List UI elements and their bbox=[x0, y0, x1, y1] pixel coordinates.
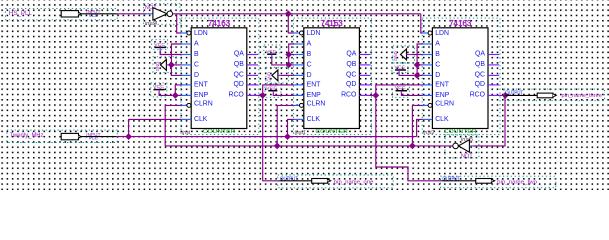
svg-text:C: C bbox=[435, 62, 440, 69]
junction CLK chip2 bbox=[284, 133, 291, 140]
wire VCC to junction C chip2 bbox=[272, 58, 286, 65]
wire VCC to ENP chip3 bbox=[401, 93, 422, 95]
wire junction to ENT chip1 bbox=[175, 85, 181, 96]
junction C chip2 bbox=[285, 62, 292, 69]
svg-text:Twenty_MHz: Twenty_MHz bbox=[10, 132, 44, 139]
svg-text:pin_name_one: pin_name_one bbox=[334, 180, 374, 186]
svg-text:D: D bbox=[435, 72, 440, 79]
junction D chip3 bbox=[414, 72, 421, 79]
svg-text:QA: QA bbox=[234, 51, 244, 58]
wire RCO chip1 junction bbox=[259, 92, 266, 99]
counter 74163 inst2 bbox=[422, 18, 500, 136]
svg-text:D: D bbox=[194, 72, 199, 79]
svg-text:CLK: CLK bbox=[194, 116, 208, 123]
wire VCC to junction D chip3 bbox=[399, 72, 414, 75]
wire HS_PLL to NOT inst4 bbox=[117, 13, 147, 15]
wire RCO2 to ENT chip3 bbox=[376, 85, 423, 96]
svg-text:inst2: inst2 bbox=[423, 130, 434, 136]
wire to CLRN chip2 bbox=[277, 105, 294, 145]
wire GND to junction chip1 bbox=[169, 64, 171, 66]
junction ENP chip1 bbox=[172, 92, 179, 99]
ground GND symbol chip1 data bbox=[153, 57, 177, 73]
svg-text:A: A bbox=[194, 41, 199, 48]
svg-text:COUNTER: COUNTER bbox=[315, 129, 348, 135]
wire to CLRN chip3 bbox=[412, 105, 422, 145]
svg-text:C: C bbox=[194, 62, 199, 69]
wire inst5 input from RCO chip3 bbox=[473, 95, 505, 145]
svg-text:74163: 74163 bbox=[449, 19, 472, 28]
dot grid background bbox=[0, 0, 609, 190]
power VCC symbol chip2 ENP bbox=[265, 84, 281, 97]
input pin HS_PLL bbox=[6, 8, 118, 19]
svg-text:RCO: RCO bbox=[341, 91, 357, 98]
inverter NOT inst5 (mirrored) bbox=[445, 135, 479, 159]
output pin pin_name_one bbox=[278, 175, 393, 188]
svg-text:ENP: ENP bbox=[194, 92, 209, 99]
svg-text:NOT: NOT bbox=[461, 153, 473, 159]
junction B chip2 bbox=[285, 51, 292, 58]
svg-text:pin_name_three: pin_name_three bbox=[562, 93, 602, 99]
svg-text:CLRN: CLRN bbox=[194, 101, 213, 108]
power VCC symbol chip2 data bbox=[264, 45, 280, 59]
svg-text:QB: QB bbox=[475, 61, 485, 68]
junction CLRN chip2 bbox=[274, 143, 281, 150]
wire RCO1 down to pin_name_one bbox=[263, 95, 280, 180]
svg-text:A: A bbox=[307, 41, 312, 48]
svg-text:COUNTER: COUNTER bbox=[203, 129, 236, 135]
svg-text:QC: QC bbox=[475, 71, 485, 78]
svg-text:ENP: ENP bbox=[307, 92, 322, 99]
wire rail Twenty_MHz bbox=[117, 136, 417, 138]
svg-text:A: A bbox=[435, 41, 440, 48]
svg-text:QB: QB bbox=[346, 61, 356, 68]
svg-text:C: C bbox=[307, 62, 312, 69]
power VCC symbol chip3 ENP bbox=[393, 84, 410, 97]
svg-text:GND: GND bbox=[155, 62, 160, 72]
svg-text:ENT: ENT bbox=[194, 82, 209, 89]
svg-text:ENT: ENT bbox=[435, 82, 450, 89]
svg-text:ENP: ENP bbox=[435, 92, 450, 99]
svg-text:OUTPUT: OUTPUT bbox=[442, 177, 460, 183]
counter 74163 inst1 bbox=[294, 18, 372, 136]
svg-text:74163: 74163 bbox=[208, 19, 231, 28]
svg-text:QD: QD bbox=[346, 81, 356, 88]
wire RCO2 down to pin_name_two bbox=[376, 95, 442, 180]
svg-text:HS_PLL: HS_PLL bbox=[9, 10, 33, 17]
svg-text:QB: QB bbox=[234, 61, 244, 68]
svg-text:QC: QC bbox=[346, 71, 356, 78]
svg-text:RCO: RCO bbox=[470, 91, 486, 98]
wire rail clear net bbox=[165, 145, 453, 147]
svg-text:B: B bbox=[194, 51, 199, 58]
svg-text:74163: 74163 bbox=[321, 19, 344, 28]
input pin Twenty_MHz bbox=[7, 130, 117, 142]
svg-text:GND: GND bbox=[393, 51, 398, 61]
svg-text:QC: QC bbox=[233, 71, 243, 78]
svg-text:LDN: LDN bbox=[435, 30, 449, 37]
svg-text:CLK: CLK bbox=[435, 116, 449, 123]
svg-text:LDN: LDN bbox=[194, 30, 208, 37]
wire VCC to pin B chip1 bbox=[160, 51, 181, 55]
svg-text:QA: QA bbox=[475, 51, 485, 58]
svg-text:COUNTER: COUNTER bbox=[444, 129, 477, 135]
junction C chip3 bbox=[414, 62, 421, 69]
wire tie vertical chip3 A/C/D bbox=[417, 44, 422, 75]
svg-text:OUTPUT: OUTPUT bbox=[280, 177, 298, 183]
svg-text:QD: QD bbox=[475, 81, 485, 88]
wire tie vertical chip1 A/C/D bbox=[171, 44, 181, 75]
junction CLK chip1 bbox=[125, 133, 132, 140]
svg-text:D: D bbox=[307, 72, 312, 79]
svg-text:QA: QA bbox=[346, 51, 356, 58]
junction C chip1 bbox=[168, 62, 175, 69]
svg-text:CLRN: CLRN bbox=[307, 101, 326, 108]
wire junction to ENP chip1 bbox=[175, 94, 181, 96]
inverter NOT inst4 bbox=[144, 4, 180, 27]
wire to CLK chip3 bbox=[417, 119, 423, 136]
svg-text:inst4: inst4 bbox=[145, 21, 157, 27]
svg-text:ENT: ENT bbox=[307, 82, 322, 89]
wire to CLK chip2 bbox=[288, 119, 294, 136]
svg-text:QD: QD bbox=[233, 81, 243, 88]
svg-text:CLRN: CLRN bbox=[435, 101, 454, 108]
svg-text:inst: inst bbox=[182, 130, 191, 136]
junction RCO chip3 bbox=[502, 92, 509, 99]
power VCC symbol chip1 data bbox=[152, 40, 168, 52]
wire GND to pin B chip3 (crosses tie vertical) bbox=[411, 54, 422, 56]
power VCC symbol chip3 data bbox=[392, 63, 408, 73]
svg-text:B: B bbox=[307, 51, 312, 58]
wire NOT output / LDN net bbox=[173, 13, 421, 15]
output pin pin_name_three bbox=[504, 89, 605, 101]
wire RCO1 to ENT chip2 bbox=[263, 85, 294, 96]
junction LDN net / chip2 bbox=[285, 10, 292, 17]
wire VCC to ENT/ENP chip1 bbox=[159, 92, 172, 95]
wire tie vertical chip2 A/B/C bbox=[289, 44, 294, 65]
output pin pin_name_two bbox=[441, 176, 556, 188]
svg-text:B: B bbox=[435, 51, 440, 58]
wire RCO chip2 junction bbox=[372, 92, 379, 99]
svg-text:CLK: CLK bbox=[307, 116, 321, 123]
wire drop to LDN chip1 bbox=[177, 14, 182, 33]
ground GND symbol chip2 bbox=[266, 67, 289, 83]
wire to CLK chip1 bbox=[129, 119, 182, 136]
junction CLRN chip3 bbox=[409, 143, 416, 150]
ground GND symbol chip3 bbox=[393, 46, 415, 63]
counter 74163 inst bbox=[181, 18, 259, 136]
wire to CLRN chip1 bbox=[165, 105, 181, 145]
wire RCO chip3 bbox=[499, 94, 503, 96]
svg-text:inst1: inst1 bbox=[295, 130, 306, 136]
svg-text:LDN: LDN bbox=[307, 30, 321, 37]
wire GND to pin D chip2 bbox=[281, 74, 294, 76]
svg-text:GND: GND bbox=[266, 72, 271, 82]
wire drop to LDN chip3 bbox=[421, 14, 423, 33]
wire VCC to ENP chip2 bbox=[273, 93, 294, 95]
svg-text:RCO: RCO bbox=[228, 91, 244, 98]
power VCC symbol chip1 ENT/ENP bbox=[151, 83, 167, 97]
wire drop to LDN chip2 bbox=[288, 14, 294, 33]
svg-text:pin_name_two: pin_name_two bbox=[497, 180, 537, 186]
